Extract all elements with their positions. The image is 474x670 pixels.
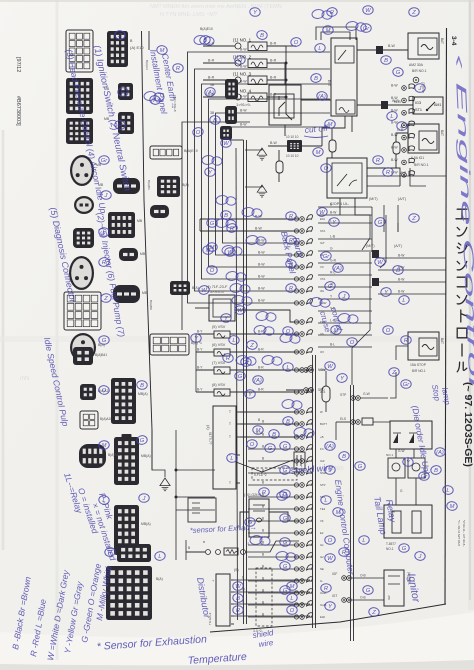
svg-text:L: L: [318, 46, 321, 52]
svg-text:(5) VSV: (5) VSV: [212, 325, 226, 329]
wire VSV left: [196, 391, 214, 393]
EFI main relay tall box: [331, 38, 357, 116]
svg-text:(A) E10: (A) E10: [130, 45, 144, 50]
injector NO.3: [235, 77, 241, 83]
svg-text:G: G: [210, 221, 215, 227]
NSW SPD pins: [304, 368, 309, 373]
svg-text:M: M: [316, 150, 321, 156]
diagonal wire DLC: [236, 460, 293, 472]
svg-text:O-B: O-B: [360, 596, 366, 600]
wire VSV right: [230, 369, 299, 371]
svg-text:9177/-77: 9177/-77: [208, 432, 212, 445]
main double bus vertical: [243, 140, 245, 624]
svg-text:M: M: [328, 122, 333, 128]
wire injector 2 output: [267, 62, 286, 64]
svg-text:W: W: [327, 556, 333, 562]
bus top entry: [230, 139, 244, 141]
connector B8 pill grid: [150, 334, 189, 355]
svg-text:R: R: [289, 286, 293, 292]
svg-text:L: L: [324, 498, 327, 504]
junction injector bus: [285, 62, 288, 65]
svg-text:(A): (A): [318, 94, 326, 100]
svg-text:B-W: B-W: [258, 251, 265, 255]
vertical title engine control japanese: [456, 209, 468, 219]
earth intake manifold: [160, 478, 170, 491]
svg-text:B/R NO.1: B/R NO.1: [412, 69, 427, 73]
svg-text:B: B: [224, 213, 228, 219]
svg-text:M: M: [336, 510, 341, 516]
svg-text:G: G: [268, 446, 273, 452]
svg-text:3B: 3B: [210, 83, 215, 87]
wire junction left: [268, 145, 287, 147]
svg-text:FC: FC: [320, 447, 324, 451]
svg-text:B(A): B(A): [182, 183, 189, 187]
svg-text:G: G: [121, 90, 126, 96]
ignition switch IG box: [413, 97, 443, 114]
svg-text:G: G: [283, 516, 288, 522]
connector ignition switch: [66, 30, 93, 72]
svg-text:B-W: B-W: [258, 263, 265, 267]
connector stack S1 dark grid: [111, 378, 136, 424]
svg-text:B-Y: B-Y: [197, 330, 203, 334]
svg-text:NO.1: NO.1: [386, 547, 394, 551]
paper crease vertical left: [56, 0, 59, 660]
svg-text:B: B: [272, 432, 276, 438]
diagnosis connector DLC box: [213, 406, 236, 489]
svg-text:B: B: [286, 419, 290, 425]
svg-text:W: W: [377, 260, 383, 266]
wire VSV left: [196, 333, 214, 335]
svg-text:B: B: [342, 454, 346, 460]
svg-text:M: M: [210, 245, 215, 251]
svg-text:O: O: [250, 442, 255, 448]
svg-text:B(A)E19: B(A)E19: [184, 149, 198, 153]
svg-text:(6) VSV: (6) VSV: [212, 343, 226, 347]
svg-text:IGF: IGF: [332, 572, 337, 576]
svg-text:B(A)B41: B(A)B41: [95, 353, 107, 357]
svg-text:O: O: [286, 329, 291, 335]
svg-text:T: T: [229, 422, 231, 426]
svg-text:B-R: B-R: [208, 59, 215, 63]
svg-text:MB(A): MB(A): [141, 454, 151, 458]
svg-text:B-W: B-W: [240, 48, 247, 52]
svg-text:B-R: B-R: [258, 388, 264, 392]
svg-text:Z: Z: [411, 216, 416, 222]
svg-text:G: G: [328, 284, 333, 290]
wires right-mid to border: [378, 257, 446, 259]
wire NSW: [286, 369, 303, 371]
svg-text:M: M: [450, 504, 455, 510]
svg-text:T: T: [229, 481, 231, 485]
svg-text:(7) VSV: (7) VSV: [212, 361, 226, 365]
svg-text:B(A): B(A): [156, 577, 163, 581]
connector C8 pill: [170, 281, 190, 295]
right lower double bus: [350, 385, 352, 641]
svg-text:G2: G2: [320, 555, 324, 559]
svg-text:IGT: IGT: [332, 594, 337, 598]
svg-text:B-W: B-W: [391, 170, 398, 174]
STP pin: [351, 396, 356, 401]
svg-text:G: G: [140, 438, 145, 444]
svg-text:L: L: [230, 456, 233, 462]
svg-text:VF: VF: [320, 519, 324, 523]
connector B5 block: [108, 212, 135, 238]
svg-text:(A/T): (A/T): [398, 197, 406, 201]
svg-text:B-Y: B-Y: [197, 348, 203, 352]
svg-text:G: G: [396, 70, 401, 76]
svg-text:Gr: Gr: [101, 158, 109, 164]
left frame vertical: [142, 31, 153, 470]
wire VSV right: [230, 333, 299, 335]
svg-text:R: R: [289, 214, 293, 220]
wire bat2 left: [396, 133, 408, 142]
wire ELS left: [336, 421, 350, 423]
svg-text:Z: Z: [411, 10, 416, 16]
svg-text:E2: E2: [320, 531, 324, 535]
svg-text:B-W: B-W: [240, 65, 247, 69]
svg-text:NSW: NSW: [318, 368, 325, 372]
svg-text:L: L: [390, 114, 393, 120]
svg-text:M: M: [326, 28, 331, 34]
svg-text:B-R: B-R: [270, 59, 277, 63]
svg-text:(A): (A): [206, 90, 214, 96]
svg-text:M: M: [102, 443, 107, 449]
dashed shield box: [252, 468, 297, 480]
svg-text:B(A): B(A): [192, 286, 199, 290]
connector E19 pill grid: [150, 146, 182, 159]
svg-text:B-R: B-R: [208, 76, 215, 80]
svg-text:O: O: [290, 608, 295, 614]
paper left edge shadow: [2, 130, 5, 550]
svg-text:B-W: B-W: [258, 299, 265, 303]
wire to IG box: [390, 104, 413, 106]
svg-text:G: G: [283, 468, 288, 474]
svg-text:1>91>9-: 1>91>9-: [236, 102, 252, 107]
svg-text:B-Y: B-Y: [197, 388, 203, 392]
extra wires upper right: [367, 175, 446, 177]
sensor sub box: [188, 498, 216, 522]
svg-text:O: O: [238, 58, 243, 64]
IGF IGT pins: [342, 576, 347, 581]
connector A8 grid: [64, 292, 101, 330]
wires lower pins to bus: [248, 423, 299, 425]
svg-text:B-R: B-R: [270, 76, 277, 80]
connector small s1: [150, 205, 169, 218]
wire relay bottom: [322, 116, 345, 146]
svg-text:O: O: [350, 340, 355, 346]
svg-text:Gr: Gr: [403, 382, 411, 388]
wires ISC: [235, 310, 299, 322]
svg-text:Gr: Gr: [363, 26, 371, 32]
svg-text:BAT: BAT: [440, 38, 444, 44]
wire injector 1 output: [267, 45, 286, 47]
exhaust temp sensor row: [206, 550, 211, 555]
wire relay mid right: [357, 104, 381, 106]
injector NO.1: [235, 43, 241, 49]
wire R1 right: [301, 99, 331, 101]
injector NO.4: [235, 94, 241, 100]
wire to earth intake: [152, 430, 165, 477]
svg-text:STP: STP: [340, 393, 346, 397]
earth symbol back panel: [257, 185, 267, 197]
svg-text:BAT: BAT: [440, 130, 444, 136]
svg-text:B-W: B-W: [240, 109, 247, 113]
wire SPD: [286, 389, 303, 391]
svg-text:B-R: B-R: [258, 348, 264, 352]
svg-text:B: B: [213, 118, 217, 124]
svg-text:3>-9-0-17: 3>-9-0-17: [210, 290, 225, 294]
svg-text:L: L: [446, 488, 449, 494]
wire bundle x370 down: [352, 252, 370, 385]
VSV valve VSV: [214, 367, 230, 374]
svg-text:Z: Z: [117, 33, 122, 39]
svg-text:J: J: [418, 86, 422, 92]
svg-text:G: G: [248, 520, 253, 526]
svg-text:3B: 3B: [210, 111, 215, 115]
wire VSV left: [196, 369, 214, 371]
ELS pin: [351, 420, 356, 425]
wire opn relay right: [367, 168, 400, 186]
svg-text:10 10 10: 10 10 10: [286, 135, 299, 139]
connector A41 square: [73, 347, 93, 365]
svg-text:B-W: B-W: [398, 278, 405, 282]
svg-text:W-B: W-B: [400, 171, 407, 175]
svg-text:G-R: G-R: [330, 259, 337, 263]
vertical bus x236: [236, 148, 238, 620]
svg-text:B-W: B-W: [398, 254, 405, 258]
svg-text:BATT: BATT: [320, 422, 327, 426]
tail lamp relay box: [384, 505, 432, 538]
svg-text:Gr: Gr: [421, 474, 429, 480]
svg-text:W-B: W-B: [394, 100, 401, 104]
ECU pin column: [300, 215, 313, 222]
wires relays down: [395, 478, 397, 505]
svg-text:AM2 30A: AM2 30A: [409, 63, 424, 67]
connector A4 oval: [70, 155, 94, 186]
svg-text:Gr: Gr: [323, 254, 331, 260]
svg-text:6.5A IG1: 6.5A IG1: [411, 156, 424, 160]
vertical drops right-mid: [371, 207, 373, 252]
frame right border: [445, 28, 447, 604]
svg-text:T: T: [211, 580, 215, 582]
svg-text:L: L: [290, 596, 293, 602]
connector A6 sq: [73, 228, 94, 248]
svg-text:B: B: [236, 596, 240, 602]
svg-text:B: B: [260, 33, 264, 39]
svg-text:B-Y: B-Y: [197, 366, 203, 370]
svg-text:B/R NO.1: B/R NO.1: [414, 163, 429, 167]
svg-text:B-W: B-W: [398, 290, 405, 294]
svg-text:B-R: B-R: [258, 366, 264, 370]
svg-text:G1: G1: [320, 543, 324, 547]
wire R1 bottom: [284, 125, 286, 136]
svg-text:O: O: [210, 268, 215, 274]
svg-text:G-: G-: [320, 579, 323, 583]
connector B2 small: [118, 83, 133, 100]
svg-text:G: G: [283, 492, 288, 498]
svg-text:[97/12: [97/12: [15, 57, 21, 72]
svg-text:O: O: [102, 388, 107, 394]
relay symbols pair: [388, 458, 405, 478]
svg-text:W: W: [327, 364, 333, 370]
svg-text:Z: Z: [391, 370, 396, 376]
wire BAT3 down: [390, 372, 396, 398]
right border pin column: [402, 86, 407, 91]
svg-text:IGT: IGT: [320, 241, 325, 245]
svg-text:L: L: [400, 124, 403, 130]
svg-text:VTA: VTA: [320, 277, 325, 281]
connector B7 pill: [113, 285, 140, 303]
svg-text:T: T: [229, 410, 231, 414]
svg-text:Z: Z: [103, 296, 108, 302]
svg-text:G: G: [238, 374, 243, 380]
svg-text:OX: OX: [320, 350, 324, 354]
svg-text:L-B: L-B: [330, 235, 336, 239]
svg-text:L: L: [158, 554, 161, 560]
connector bottom B10 dark: [117, 544, 151, 562]
wires DLC right: [240, 411, 299, 413]
svg-text:B(A)A11: B(A)A11: [100, 417, 112, 421]
svg-text:(4): (4): [206, 425, 210, 430]
svg-text:B-W: B-W: [270, 141, 278, 145]
svg-text:B-R: B-R: [270, 93, 277, 97]
svg-text:W: W: [223, 141, 229, 147]
svg-text:O: O: [328, 538, 333, 544]
svg-text:O: O: [196, 130, 201, 136]
svg-text:MB: MB: [142, 291, 148, 295]
paper bottom white band: [0, 612, 474, 670]
wire ELS right: [373, 421, 390, 423]
svg-text:B-W: B-W: [255, 227, 263, 231]
svg-text:T-8577: T-8577: [386, 542, 396, 546]
wires to injector connectors: [203, 45, 235, 47]
wires right-mid region: [318, 206, 372, 208]
svg-text:B: B: [384, 58, 388, 64]
svg-text:TE2: TE2: [320, 507, 326, 511]
ignitor box: [384, 570, 404, 606]
svg-text:BAT: BAT: [440, 338, 444, 344]
svg-text:G: G: [283, 588, 288, 594]
svg-text:STP: STP: [320, 483, 326, 487]
svg-text:M: M: [118, 123, 123, 129]
svg-text:G: G: [402, 546, 407, 552]
svg-text:(M/T): (M/T): [369, 197, 378, 201]
ignition switch symbol: [413, 77, 419, 83]
wires diode down: [395, 449, 397, 458]
wire junction right: [302, 145, 322, 147]
svg-text:L: L: [402, 298, 405, 304]
svg-text:G-W: G-W: [363, 392, 371, 396]
svg-text:*2:'93.11~ A/T 96.8~: *2:'93.11~ A/T 96.8~: [462, 520, 466, 547]
svg-text:B-W: B-W: [258, 239, 265, 243]
bleed-through ghost text top: [150, 4, 282, 18]
junction block connector: [287, 140, 302, 152]
svg-text:(A): (A): [254, 378, 262, 384]
connector stack S3 dark grid: [114, 505, 139, 555]
connector A9 oval: [70, 333, 96, 362]
svg-text:W: W: [319, 210, 325, 216]
svg-text:(A): (A): [334, 266, 342, 272]
svg-text:J: J: [328, 468, 332, 474]
connector A2 dark: [66, 78, 93, 114]
svg-text:W: W: [237, 308, 243, 314]
wires O2 sensor: [269, 512, 299, 521]
wire vsv bus join: [195, 334, 197, 392]
svg-text:B-W: B-W: [258, 275, 265, 279]
relay top nested wires: [316, 27, 356, 40]
wire STP right: [360, 397, 388, 399]
svg-text:5-FL8 *2: 5-FL8 *2: [254, 473, 267, 477]
svg-text:R: R: [289, 238, 293, 244]
svg-text:3-4: 3-4: [450, 36, 457, 46]
svg-text:#B6738003]: #B6738003]: [15, 96, 21, 126]
frame bottom border: [210, 604, 446, 632]
svg-text:*: *: [203, 541, 205, 547]
connector A5 oval: [74, 196, 94, 214]
fuse F1: [276, 161, 283, 173]
svg-text:O: O: [294, 40, 299, 46]
second double bus: [312, 355, 314, 628]
connector A7 big oval: [69, 256, 94, 290]
svg-text:M: M: [334, 328, 339, 334]
svg-text:O-B: O-B: [360, 574, 366, 578]
resistor ELS: [362, 418, 373, 425]
svg-text:B/R NO.1: B/R NO.1: [412, 369, 426, 373]
svg-text:B-W: B-W: [391, 158, 398, 162]
vertical bus x176: [175, 430, 177, 560]
blue paired marks: [143, 9, 366, 562]
svg-text:B-R: B-R: [270, 42, 277, 46]
connector C3 small: [225, 106, 237, 124]
svg-text:Z: Z: [249, 343, 254, 349]
svg-text:B: B: [140, 383, 144, 389]
svg-text:(8) VSV: (8) VSV: [212, 383, 226, 387]
svg-text:W: W: [320, 410, 323, 414]
svg-text:B-W: B-W: [391, 146, 398, 150]
svg-text:G-W: G-W: [398, 449, 405, 453]
svg-text:mN: mN: [20, 376, 29, 382]
svg-text:W: W: [235, 584, 241, 590]
blue circled colour marks: [98, 6, 458, 617]
svg-text:T: T: [229, 435, 231, 439]
wires MT AT: [362, 215, 370, 250]
battery box BAT2: [408, 124, 439, 153]
frame left stub: [148, 31, 150, 50]
connector C2 small: [225, 79, 238, 99]
svg-text:E02: E02: [320, 615, 325, 619]
svg-text:*1:~'93.11 M/T 96.8: *1:~'93.11 M/T 96.8: [457, 520, 461, 546]
svg-text:R: R: [289, 262, 293, 268]
connector C4 small: [220, 126, 232, 140]
svg-text:Z: Z: [371, 610, 376, 616]
fuse F2: [329, 140, 336, 152]
paper crease horizontal: [0, 336, 474, 342]
VSV valve VSV: [214, 389, 230, 396]
connector M block: [157, 176, 180, 197]
svg-text:G: G: [330, 247, 333, 251]
svg-text:|>\|*><|%/+8: |>\|*><|%/+8: [173, 95, 177, 112]
svg-text:15A STOP: 15A STOP: [410, 363, 427, 367]
wire to BAT3: [396, 346, 408, 360]
connector B col E10: [107, 31, 128, 67]
svg-text:M: M: [160, 48, 165, 54]
svg-text:O: O: [386, 328, 391, 334]
svg-text:G: G: [366, 588, 371, 594]
connector A11b grid: [80, 411, 98, 429]
svg-text:W: W: [365, 8, 371, 14]
connector stack S2 dark grid: [114, 434, 139, 485]
svg-text:L: L: [102, 230, 105, 236]
